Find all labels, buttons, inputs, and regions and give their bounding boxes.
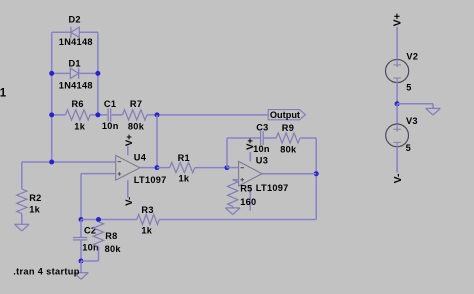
junction main-C1 left (95, 112, 100, 117)
svg-text:V+: V+ (245, 138, 256, 150)
svg-text:LT1097: LT1097 (134, 175, 167, 185)
wire U3 V- stub (249, 195, 251, 210)
diode D1 (70, 68, 78, 79)
label R8 (105, 231, 117, 241)
svg-text:1N4148: 1N4148 (59, 81, 93, 91)
voltage source V2 (386, 59, 409, 82)
svg-text:R3: R3 (141, 205, 153, 215)
svg-text:U3: U3 (256, 155, 268, 165)
wire U4 output (140, 167, 157, 169)
svg-text:R9: R9 (282, 123, 294, 133)
label R2 (29, 193, 41, 203)
wire U4 plus input (81, 173, 116, 175)
svg-text:V-: V- (124, 197, 135, 206)
value 80k of R8 (105, 244, 122, 254)
svg-text:80k: 80k (280, 144, 297, 154)
label R9 (282, 123, 294, 133)
node 1 label (0, 88, 7, 100)
junction loop-left on minus wire (49, 160, 54, 165)
wire R7 to Output flag (147, 114, 268, 116)
label R1 (178, 153, 190, 163)
wire D2 top left segment (52, 31, 71, 33)
resistor R3 (137, 214, 160, 224)
svg-text:160: 160 (240, 197, 256, 207)
svg-text:V-: V- (392, 173, 404, 183)
value 80k of R9 (280, 144, 297, 154)
junction C2 bottom (79, 259, 84, 264)
svg-text:V+: V+ (124, 134, 135, 146)
svg-text:R8: R8 (105, 231, 117, 241)
wire R9 right to corner (300, 137, 316, 139)
wire C2 top (80, 220, 82, 238)
wire diode-loop left vertical (51, 32, 53, 162)
label D1 (69, 59, 81, 69)
wire R6 to C1 (90, 114, 107, 116)
V+ flag of U3 (245, 138, 256, 150)
wire main left segment (52, 114, 66, 116)
svg-text:1N4148: 1N4148 (59, 37, 93, 47)
wire C3 to R9 (264, 137, 276, 139)
value 5 of V2 (406, 82, 411, 92)
svg-text:1k: 1k (179, 174, 190, 184)
wire bottom link C2-R8 (81, 260, 99, 262)
svg-text:U4: U4 (134, 153, 147, 163)
svg-text:10n: 10n (102, 121, 119, 131)
value 10n of C2 (82, 243, 99, 253)
wire junction to U4 output (156, 115, 158, 168)
label V2 (406, 51, 418, 61)
label R5 (240, 183, 252, 193)
svg-text:80k: 80k (105, 244, 122, 254)
capacitor C2 (73, 238, 87, 240)
wire D2 top right segment (79, 31, 98, 33)
svg-text:10n: 10n (82, 243, 99, 253)
resistor R1 (170, 163, 195, 173)
wire U4 plus down to bottom rail (80, 174, 82, 220)
svg-text:1k: 1k (29, 204, 40, 214)
ground under R5 (225, 208, 240, 215)
svg-text:1k: 1k (74, 122, 85, 132)
value 5 of V3 (406, 143, 411, 153)
value 160 of R5 (240, 197, 256, 207)
label C3 (256, 122, 268, 132)
wire U4 minus input (22, 161, 116, 163)
label C2 (84, 226, 96, 236)
V+ flag top right (392, 13, 404, 26)
value 1N4148 of D1 (59, 81, 93, 91)
wire C1 to R7 (112, 114, 123, 116)
svg-text:R6: R6 (72, 99, 84, 109)
wire R2 bottom stub (21, 214, 23, 225)
svg-text:V2: V2 (406, 51, 418, 61)
wire R5 bottom stub (232, 206, 234, 208)
value LT1097 of U3 (256, 183, 289, 193)
label R6 (72, 99, 84, 109)
junction bottom rail at C2 column (79, 217, 84, 222)
wire right vertical (315, 138, 317, 220)
svg-text:R7: R7 (130, 99, 142, 109)
value 1k of R6 (74, 122, 85, 132)
label U4 (134, 153, 147, 163)
svg-text:.tran 4 startup: .tran 4 startup (13, 266, 80, 276)
junction D1 left (49, 71, 54, 76)
resistor R8 (93, 222, 103, 247)
value 10n of C3 (253, 144, 270, 154)
wire ground drop (432, 104, 434, 109)
svg-text:C1: C1 (104, 99, 116, 109)
directive .tran 4 startup (13, 266, 80, 276)
ground under R2 (15, 224, 30, 231)
resistor R2 (17, 189, 27, 214)
wire R2 top (21, 162, 23, 189)
ground top right (426, 108, 441, 115)
junction D1 right (95, 71, 100, 76)
value 80k of R7 (128, 122, 145, 132)
ground under C2 (74, 273, 89, 280)
svg-text:C3: C3 (256, 122, 268, 132)
svg-text:LT1097: LT1097 (256, 183, 289, 193)
wire bottom rail right segment (159, 219, 316, 221)
wire U3 plus bend (233, 179, 239, 181)
diode D2 (71, 27, 79, 38)
capacitor C3 (261, 131, 264, 145)
wire D1 right segment (79, 72, 98, 74)
svg-text:1: 1 (0, 88, 7, 100)
junction main-R6 left (49, 112, 54, 117)
value 1k of R1 (179, 174, 190, 184)
junction U4 output (155, 165, 160, 170)
svg-text:R2: R2 (29, 193, 41, 203)
resistor R5 (228, 180, 238, 207)
svg-text:Output: Output (270, 110, 300, 120)
junction main right of R7 (155, 112, 160, 117)
svg-text:80k: 80k (128, 122, 145, 132)
value LT1097 of U4 (134, 175, 167, 185)
wire diode-loop right vertical (97, 32, 99, 115)
label D2 (69, 15, 81, 25)
wire ground stub under C2 (80, 261, 82, 273)
wire R1 right (195, 167, 227, 169)
wire J2 up to C3 wire (226, 138, 228, 168)
wire R1 left (157, 167, 170, 169)
V- flag bottom right (392, 173, 404, 183)
junction R1 right (225, 165, 230, 170)
label R3 (141, 205, 153, 215)
resistor R6 (65, 110, 90, 120)
svg-text:D2: D2 (69, 15, 81, 25)
svg-text:5: 5 (406, 82, 411, 92)
wire R8 bottom (98, 247, 100, 262)
wire U4 V- pin to flag (127, 190, 129, 198)
svg-text:V3: V3 (406, 116, 418, 126)
label V3 (406, 116, 418, 126)
resistor R7 (123, 110, 148, 120)
capacitor C1 (108, 108, 111, 121)
V+ flag of U4 (124, 134, 135, 146)
svg-text:V+: V+ (392, 13, 404, 26)
value 1k of R3 (141, 226, 152, 236)
wire V3 to V- flag (396, 147, 398, 173)
op-amp U3 (239, 152, 262, 195)
wire V+ to V2 (396, 27, 398, 60)
svg-text:R5: R5 (240, 183, 252, 193)
wire bottom rail left segment (81, 219, 137, 221)
wire D1 left segment (52, 72, 71, 74)
value 1N4148 of D2 (59, 37, 93, 47)
junction supply midpoint (395, 101, 400, 106)
svg-text:1k: 1k (141, 226, 152, 236)
svg-text:5: 5 (406, 143, 411, 153)
wire C3 left (227, 137, 260, 139)
label C1 (104, 99, 116, 109)
svg-text:R1: R1 (178, 153, 190, 163)
wire C2 bottom (80, 240, 82, 261)
wire junction to ground horizontal (397, 103, 433, 105)
value 10n of C1 (102, 121, 119, 131)
svg-text:D1: D1 (69, 59, 81, 69)
label R7 (130, 99, 142, 109)
junction U3 output on right vertical (314, 171, 319, 176)
V- flag of U4 (124, 197, 135, 206)
output flag (268, 110, 305, 121)
resistor R9 (276, 133, 300, 143)
voltage source V3 (386, 124, 409, 147)
label U3 (256, 155, 268, 165)
op-amp U4 (116, 146, 140, 189)
junction bottom rail at R8 column (96, 217, 101, 222)
wire V2 to junction (396, 83, 398, 104)
wire J2 to U3 minus (227, 167, 239, 169)
wire junction to V3 (396, 104, 398, 124)
wire U3 output (262, 173, 316, 175)
value 1k of R2 (29, 204, 40, 214)
